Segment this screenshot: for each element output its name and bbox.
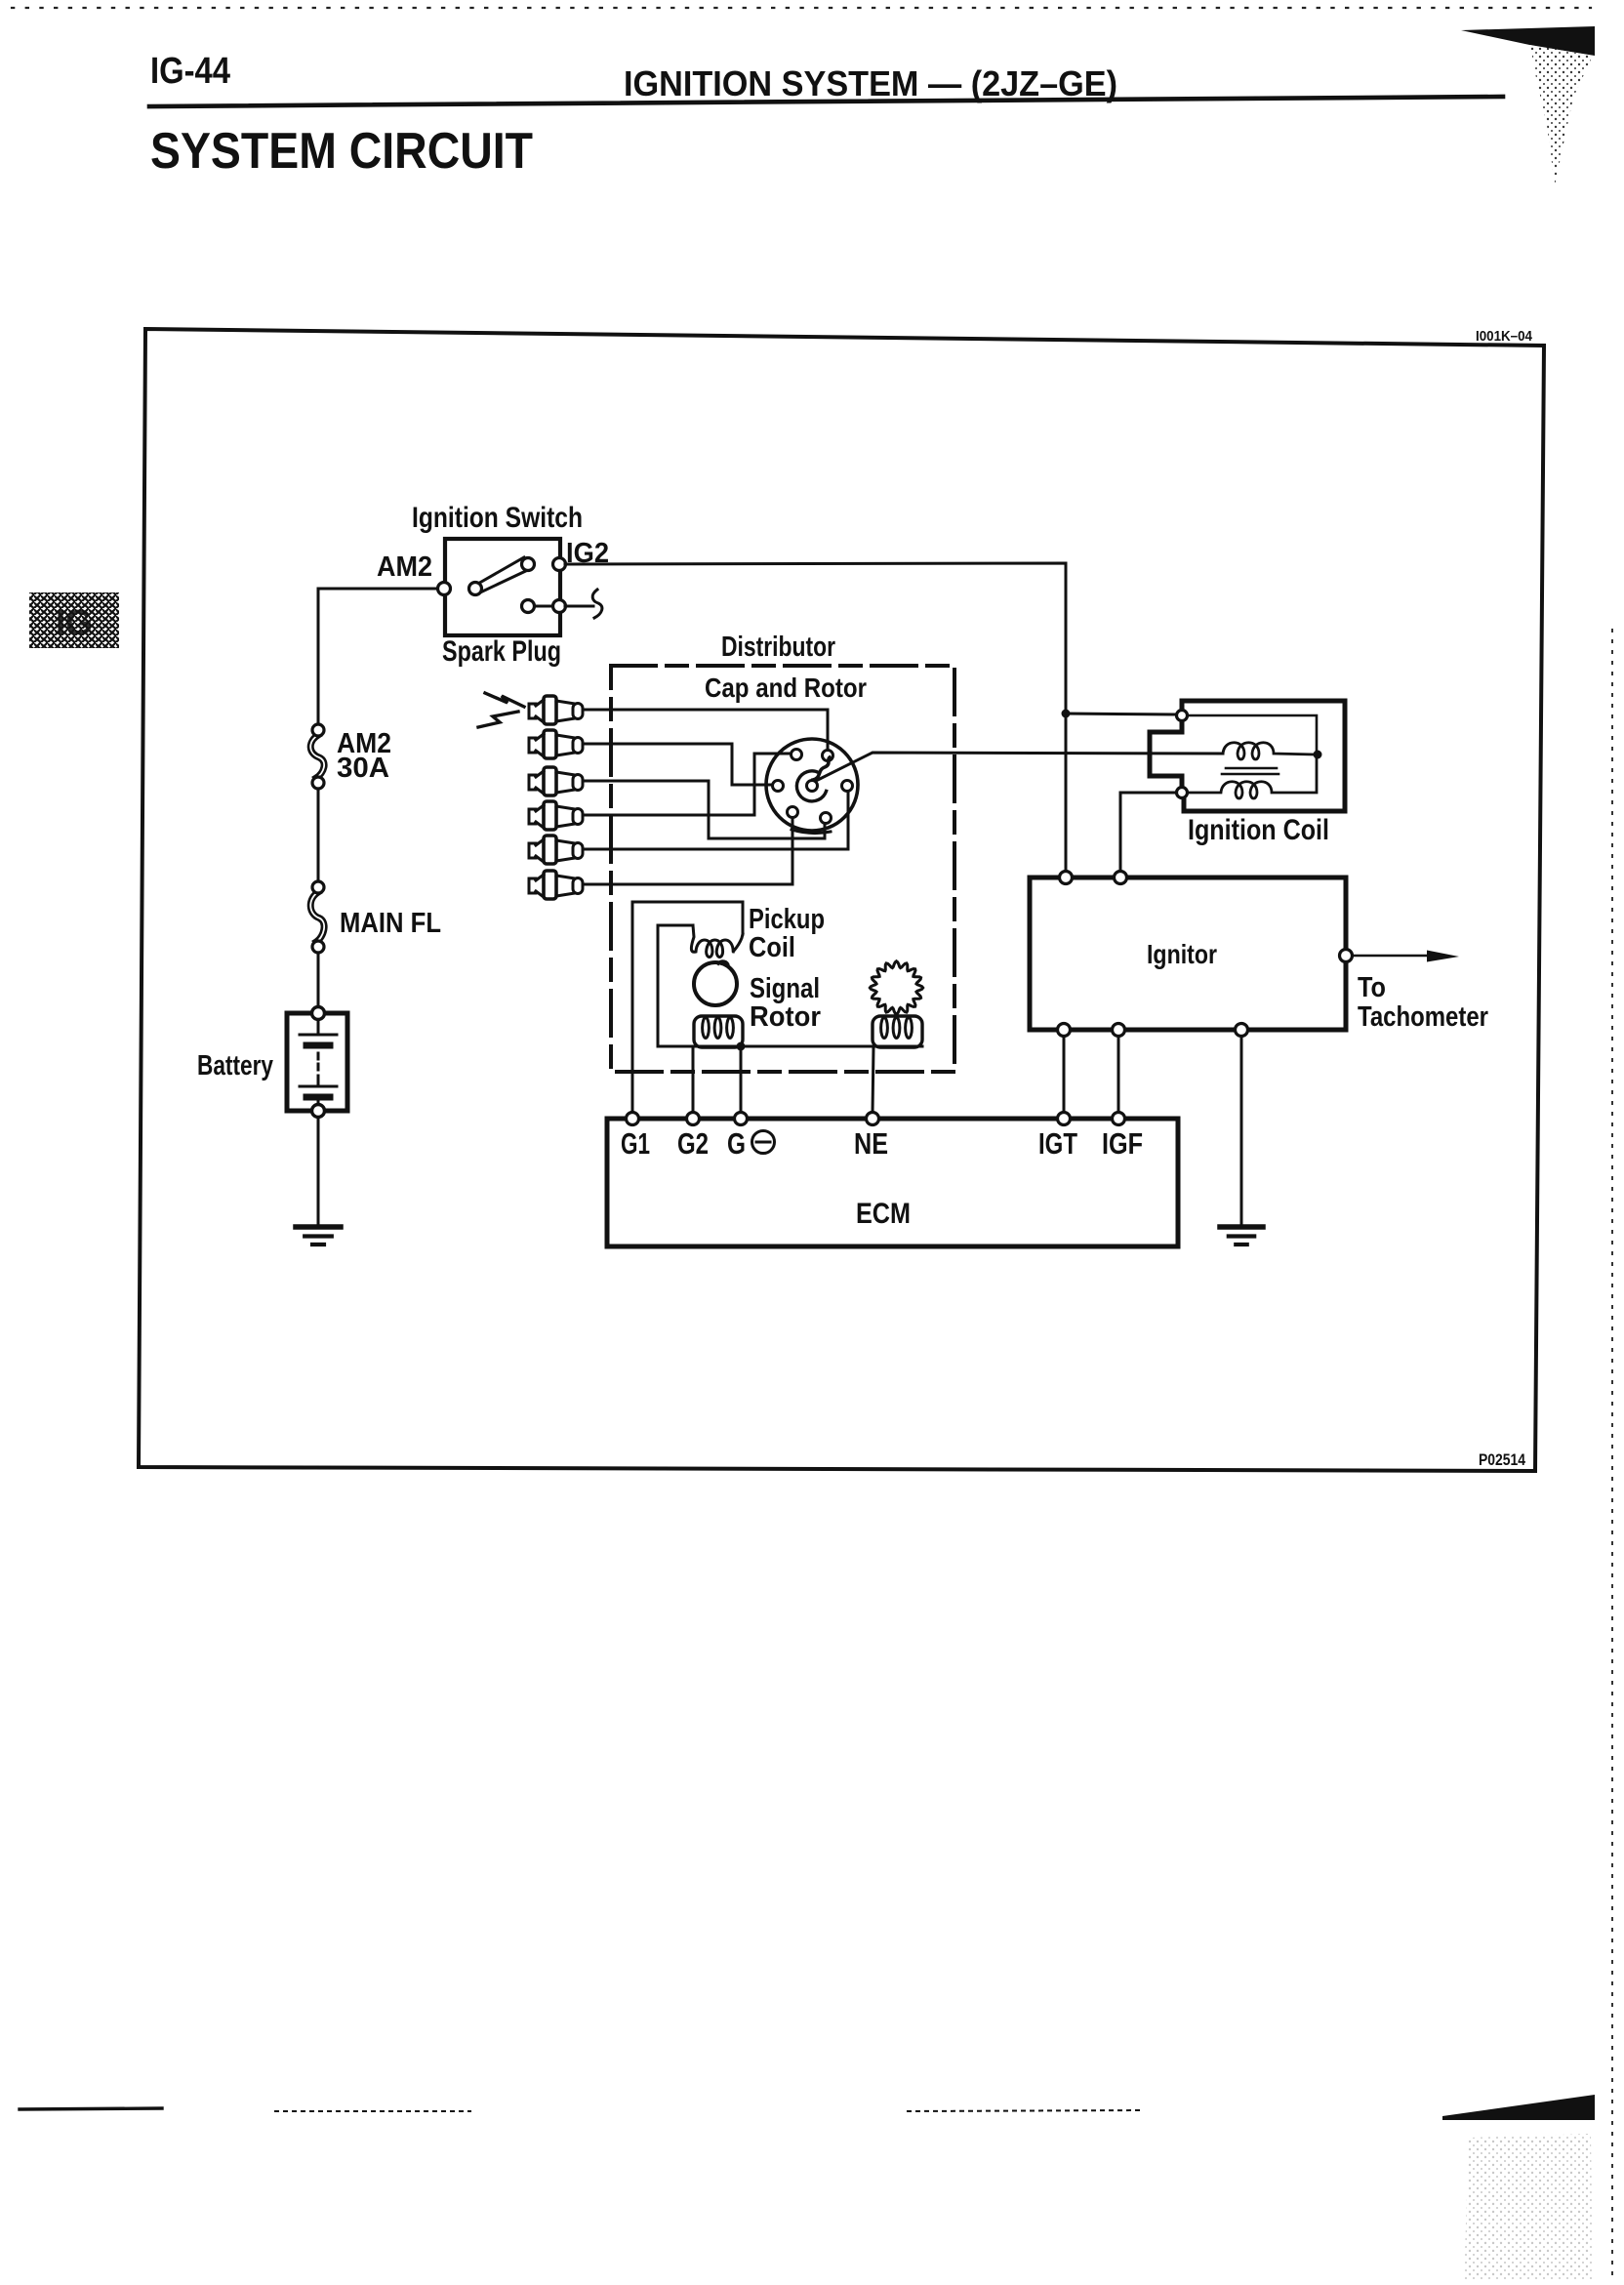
- right margin dotted rule: [1611, 630, 1613, 2280]
- IG thumb tab: [29, 592, 119, 648]
- header rule: [149, 97, 1503, 106]
- svg-text:Battery: Battery: [197, 1050, 273, 1081]
- plug wire 6 to cap terminal (bottom left): [583, 818, 792, 884]
- spark-plug branch stub with break squiggle: [565, 590, 602, 618]
- NE signal rotor (timing gear): [870, 961, 922, 1014]
- plug wire 2 to cap terminal (left): [583, 744, 771, 785]
- plug wire 4 to cap terminal (top): [583, 754, 791, 815]
- ECM pin IGF: [1113, 1113, 1125, 1125]
- ignition coil secondary winding: [1188, 758, 1317, 798]
- label AM2 30A: [337, 728, 391, 784]
- junction node coil secondary: [1314, 751, 1322, 759]
- rotor: [796, 757, 830, 801]
- svg-text:Pickup: Pickup: [749, 904, 825, 935]
- fusible link MAIN FL: [310, 881, 324, 953]
- wire G to ECM: [740, 1046, 743, 1113]
- svg-text:G: G: [727, 1126, 746, 1161]
- cap terminal left: [773, 781, 784, 792]
- svg-text:IGT: IGT: [1038, 1126, 1077, 1161]
- svg-text:SYSTEM CIRCUIT: SYSTEM CIRCUIT: [150, 123, 533, 180]
- wire ignitor to ground: [1240, 1037, 1243, 1226]
- ECM pin G: [735, 1113, 748, 1125]
- ignition coil housing: [1150, 701, 1345, 811]
- svg-text:Ignition Switch: Ignition Switch: [412, 502, 583, 534]
- wire NE to ECM: [873, 1047, 873, 1113]
- top margin dotted line: [12, 7, 1591, 9]
- figure border frame: [139, 329, 1544, 1471]
- cap terminal top: [792, 750, 802, 760]
- footer rule fragments: [20, 2108, 1144, 2111]
- battery: [287, 1007, 347, 1118]
- svg-text:IGF: IGF: [1102, 1126, 1143, 1161]
- ignitor box: [1030, 877, 1346, 1030]
- ground (ignitor): [1220, 1227, 1263, 1245]
- svg-text:Signal: Signal: [750, 973, 820, 1004]
- ECM pin G1: [627, 1113, 639, 1125]
- spark plug 5: [529, 836, 583, 864]
- svg-text:Spark Plug: Spark Plug: [442, 635, 561, 668]
- ECM pin IGT: [1058, 1113, 1071, 1125]
- spark lightning bolt: [478, 693, 524, 727]
- svg-text:30A: 30A: [337, 753, 389, 784]
- cap terminal top-right: [823, 751, 833, 761]
- wire IGT: [1063, 1037, 1066, 1113]
- ignitor pin IGF: [1113, 1024, 1125, 1037]
- ignitor pin tach: [1340, 950, 1353, 962]
- coil core: [1222, 768, 1279, 774]
- cap terminal bottom-left: [788, 807, 798, 818]
- ECM pin NE: [867, 1113, 879, 1125]
- svg-text:G2: G2: [677, 1126, 709, 1161]
- signal rotor (G): [694, 961, 737, 1005]
- svg-text:I001K–04: I001K–04: [1476, 328, 1533, 345]
- common ground wire inside distributor: [658, 1045, 922, 1048]
- svg-text:MAIN FL: MAIN FL: [340, 908, 441, 939]
- cap terminal bottom-right: [821, 813, 832, 824]
- wire coil - terminal to ignitor: [1120, 793, 1176, 872]
- wire fusible link to battery: [317, 953, 320, 1007]
- svg-text:Distributor: Distributor: [721, 632, 835, 663]
- svg-text:P02514: P02514: [1479, 1451, 1526, 1469]
- svg-text:Ignition Coil: Ignition Coil: [1188, 814, 1329, 846]
- wire common to pickup winding: [658, 925, 693, 1046]
- G pickup coil box: [694, 1016, 743, 1047]
- wire fuse to fusible link: [317, 789, 320, 881]
- svg-text:To: To: [1358, 972, 1386, 1003]
- ignitor pin top 1: [1060, 872, 1073, 884]
- spark plug 2: [529, 730, 583, 758]
- wire IGF: [1117, 1037, 1120, 1113]
- cap terminal right: [842, 781, 853, 792]
- wire junction to ignition coil + terminal: [1066, 714, 1176, 714]
- ignition switch box: [445, 539, 560, 635]
- wire AM2 feed (battery branch top): [318, 589, 438, 724]
- distributor dashed enclosure: [611, 666, 954, 1072]
- distributor cap: [766, 739, 858, 831]
- ECM pin G2: [687, 1113, 700, 1125]
- wire G2 to ECM: [692, 1047, 695, 1113]
- tachometer arrow: [1353, 951, 1459, 962]
- rotor output wire to ignition coil: [816, 753, 1223, 781]
- junction node (coil B+): [1062, 710, 1071, 718]
- switch lever: [476, 557, 532, 592]
- junction node G: [737, 1042, 746, 1051]
- label To Tachometer: [1358, 972, 1488, 1033]
- NE pickup coil box: [873, 1016, 922, 1047]
- wire battery to ground: [317, 1118, 320, 1226]
- spark plug 3: [529, 767, 583, 796]
- svg-text:AM2: AM2: [377, 551, 432, 583]
- svg-text:Tachometer: Tachometer: [1358, 1001, 1488, 1033]
- svg-text:Rotor: Rotor: [750, 1001, 821, 1033]
- svg-text:ECM: ECM: [856, 1198, 911, 1230]
- plug wire 5 to cap terminal (right): [583, 792, 848, 849]
- pin label G with minus: [727, 1126, 775, 1161]
- plug wire 3 to cap terminal (bottom right): [583, 781, 825, 838]
- ignitor pin IGT: [1058, 1024, 1071, 1037]
- ignitor pin top 2: [1115, 872, 1127, 884]
- plug wire 1 to cap terminal (top right): [583, 710, 828, 750]
- label Signal Rotor: [750, 973, 821, 1033]
- pickup coil (G) winding: [691, 925, 743, 958]
- ignition coil primary winding: [1223, 743, 1314, 759]
- svg-text:Cap and Rotor: Cap and Rotor: [705, 673, 867, 703]
- cap lower skirt: [792, 830, 831, 834]
- top right corner scan wedge: [1461, 26, 1595, 56]
- ignitor pin ground: [1236, 1024, 1248, 1037]
- svg-text:IGNITION SYSTEM — (2JZ–GE): IGNITION SYSTEM — (2JZ–GE): [624, 63, 1117, 103]
- coil internal feed from + terminal: [1188, 715, 1317, 751]
- spark plug 6: [529, 871, 583, 899]
- label Pickup Coil: [749, 904, 825, 963]
- svg-text:IG: IG: [56, 602, 93, 642]
- wire IG2 to ignitor: [565, 563, 1066, 877]
- switch contacts: [438, 558, 566, 613]
- svg-text:NE: NE: [854, 1126, 888, 1161]
- svg-text:Coil: Coil: [749, 932, 795, 963]
- svg-text:G1: G1: [621, 1126, 650, 1161]
- ground (battery): [296, 1227, 341, 1245]
- pickup coil (G) loop outer: [632, 902, 743, 1113]
- ECM box: [607, 1119, 1178, 1246]
- svg-text:IG-44: IG-44: [150, 51, 230, 92]
- spark plug 4: [529, 801, 583, 830]
- fuse AM2 30A: [310, 724, 324, 789]
- spark plug 1: [529, 696, 583, 724]
- svg-text:Ignitor: Ignitor: [1147, 939, 1217, 969]
- bottom right corner scan wedge: [1442, 2095, 1595, 2120]
